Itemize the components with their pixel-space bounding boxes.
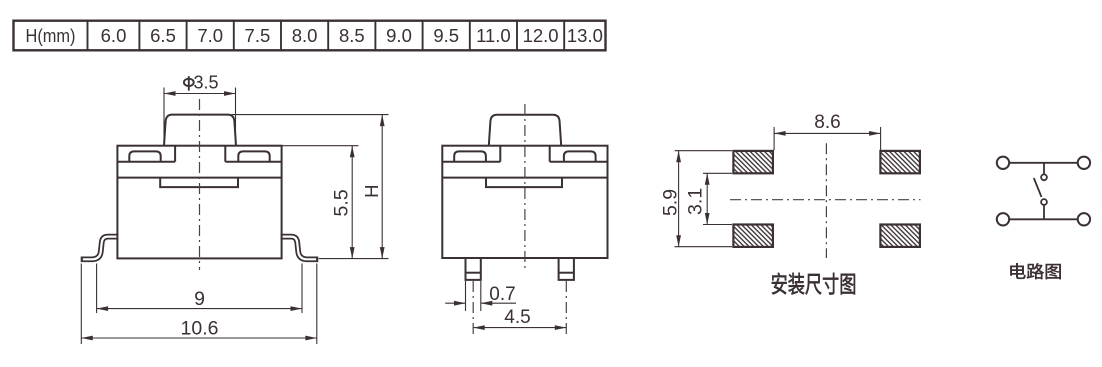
cover bottom line (117, 177, 281, 179)
table outer border (14, 21, 606, 51)
terminal circle top-left (997, 157, 1009, 169)
dim 9 line (97, 308, 302, 310)
left pin (466, 258, 481, 280)
svg-text:9.5: 9.5 (433, 25, 459, 46)
switch lever (1034, 178, 1042, 197)
svg-text:8.5: 8.5 (339, 25, 365, 46)
dim 3.1 extension lines (703, 173, 732, 224)
top wire (1009, 162, 1077, 164)
right mounting tab (238, 151, 269, 161)
svg-text:8.0: 8.0 (292, 25, 318, 46)
centerline side view (524, 104, 526, 268)
base notch (160, 178, 238, 188)
dim 8.6 extension lines (774, 127, 881, 150)
switch body side (442, 146, 607, 258)
pad top-right (880, 151, 920, 173)
svg-text:7.5: 7.5 (245, 25, 271, 46)
dim phi3.5 extension lines (164, 88, 236, 145)
cover step line left (117, 146, 175, 162)
svg-text:0.7: 0.7 (489, 284, 515, 305)
bottom contact stub (1043, 205, 1045, 219)
centerline front view (199, 99, 201, 270)
terminal circle bottom-left (997, 213, 1009, 225)
table cell texts (26, 25, 603, 46)
top contact circle (1041, 174, 1047, 180)
cover step line right side (550, 146, 608, 162)
vertical centerline (825, 143, 827, 258)
label: anzhuang chicun tu (772, 273, 787, 295)
dim 5.9 line (678, 151, 680, 247)
push button (stem) side (489, 115, 561, 146)
dim 8.6 line (774, 132, 881, 134)
bottom wire (1009, 218, 1077, 220)
svg-text:H: H (361, 185, 382, 198)
terminal circle bottom-right (1078, 213, 1090, 225)
switch body front (117, 146, 281, 259)
svg-text:3.5: 3.5 (193, 72, 218, 92)
dim 0.7 extension lines (445, 281, 516, 311)
svg-text:7.0: 7.0 (197, 25, 223, 46)
svg-text:11.0: 11.0 (476, 25, 511, 46)
extension line from button top to H dim (232, 115, 389, 259)
svg-text:10.6: 10.6 (181, 317, 219, 339)
pad bottom-left (733, 225, 773, 247)
dim 5.9 extension lines (675, 151, 733, 247)
svg-text:12.0: 12.0 (523, 25, 559, 46)
dim 9 extension lines (97, 264, 302, 314)
svg-text:4.5: 4.5 (504, 307, 530, 328)
base notch side (486, 178, 562, 188)
left mounting tab (129, 151, 160, 161)
dim 0.7 leader lines (445, 302, 465, 304)
dim 10.6 extension lines (81, 264, 316, 345)
svg-text:13.0: 13.0 (567, 25, 603, 46)
svg-text:9.0: 9.0 (386, 25, 412, 46)
svg-text:3.1: 3.1 (685, 188, 707, 215)
right gull-wing leg (280, 237, 319, 260)
bottom contact circle (1041, 199, 1047, 205)
push button (stem) front (164, 115, 236, 146)
dim phi3.5 line (164, 93, 236, 95)
right pin centerline (565, 281, 567, 338)
svg-text:H(mm): H(mm) (26, 25, 76, 46)
dim phi3.5 text (184, 76, 194, 90)
svg-text:6.0: 6.0 (101, 25, 127, 46)
left pin centerline (472, 281, 474, 338)
svg-text:9: 9 (194, 288, 205, 310)
dim 4.5 line (473, 327, 566, 329)
right pin (559, 258, 574, 280)
extension line from body top to 5.5 dim (282, 145, 359, 147)
label: dianlutu (1010, 263, 1025, 279)
right mounting tab side (564, 151, 596, 161)
extension line bottom right (319, 258, 389, 260)
pad bottom-right (880, 225, 920, 247)
cover step line left side (442, 146, 500, 162)
svg-text:5.5: 5.5 (331, 189, 353, 216)
svg-text:8.6: 8.6 (814, 112, 840, 133)
left mounting tab side (454, 151, 486, 161)
dim 10.6 line (81, 337, 316, 339)
pad top-left (733, 151, 773, 173)
left gull-wing leg (81, 237, 120, 260)
dim H line (381, 115, 383, 259)
dim 5.5 line (351, 146, 353, 259)
cover step line right (225, 146, 281, 162)
top contact stub (1043, 163, 1045, 175)
table column separators (88, 21, 565, 51)
svg-text:6.5: 6.5 (150, 25, 176, 46)
cover bottom line side (442, 177, 607, 179)
horizontal centerline (730, 199, 921, 201)
svg-text:5.9: 5.9 (659, 189, 681, 216)
dim 3.1 line (706, 173, 708, 224)
terminal circle top-right (1078, 157, 1090, 169)
